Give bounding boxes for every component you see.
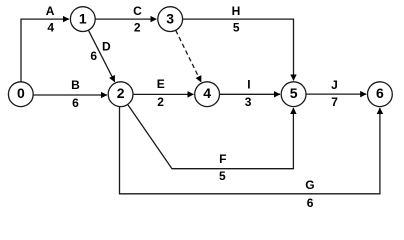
svg-text:G: G bbox=[305, 178, 314, 192]
svg-text:6: 6 bbox=[72, 96, 79, 110]
svg-text:6: 6 bbox=[307, 196, 314, 210]
svg-text:1: 1 bbox=[79, 11, 87, 27]
svg-text:D: D bbox=[102, 39, 111, 53]
svg-text:5: 5 bbox=[290, 85, 298, 101]
svg-text:6: 6 bbox=[376, 85, 384, 101]
svg-text:C: C bbox=[133, 4, 142, 18]
svg-text:E: E bbox=[157, 77, 165, 91]
svg-text:5: 5 bbox=[233, 21, 240, 35]
svg-text:7: 7 bbox=[331, 95, 338, 109]
svg-text:3: 3 bbox=[245, 95, 252, 109]
svg-text:2: 2 bbox=[117, 85, 125, 101]
svg-text:4: 4 bbox=[47, 21, 54, 35]
svg-text:I: I bbox=[247, 78, 250, 92]
svg-text:H: H bbox=[232, 4, 241, 18]
svg-text:4: 4 bbox=[203, 85, 211, 101]
svg-text:6: 6 bbox=[90, 49, 97, 63]
svg-text:3: 3 bbox=[166, 11, 174, 27]
svg-text:0: 0 bbox=[17, 85, 25, 101]
svg-text:J: J bbox=[331, 78, 338, 92]
svg-text:5: 5 bbox=[219, 169, 226, 183]
svg-text:B: B bbox=[71, 78, 80, 92]
svg-text:A: A bbox=[46, 4, 55, 18]
svg-text:F: F bbox=[219, 152, 226, 166]
svg-text:2: 2 bbox=[134, 21, 141, 35]
svg-text:2: 2 bbox=[157, 95, 164, 109]
